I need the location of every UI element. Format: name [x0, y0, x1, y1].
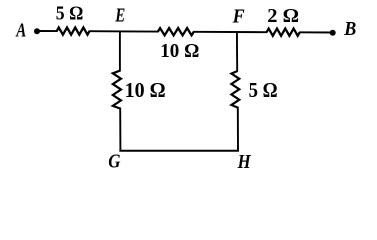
svg-text:B: B: [343, 18, 356, 40]
svg-text:E: E: [114, 5, 125, 27]
svg-text:10 Ω: 10 Ω: [160, 40, 199, 62]
wire F down: [236, 31, 238, 72]
wire: [193, 31, 267, 33]
resistor 2ohm F-B: [267, 29, 300, 36]
wire G up: [119, 108, 121, 151]
svg-text:A: A: [15, 19, 26, 41]
wire G-H bottom: [119, 150, 239, 152]
wire: [299, 31, 333, 33]
node B: [330, 30, 336, 36]
resistor 5ohm F-H: [231, 71, 239, 108]
wire: [37, 30, 58, 32]
svg-text:2 Ω: 2 Ω: [267, 5, 299, 27]
node A: [34, 28, 40, 34]
resistor 10ohm E-F: [158, 28, 194, 35]
svg-text:10 Ω: 10 Ω: [125, 78, 166, 102]
wire H up: [237, 107, 239, 151]
svg-text:F: F: [232, 6, 245, 28]
svg-text:5 Ω: 5 Ω: [56, 3, 84, 25]
svg-text:5 Ω: 5 Ω: [249, 78, 278, 102]
svg-text:H: H: [237, 151, 252, 173]
svg-text:G: G: [108, 151, 121, 173]
wire E down: [119, 31, 121, 72]
resistor 10ohm E-G: [113, 71, 121, 109]
resistor 5ohm A-E: [57, 28, 90, 35]
wire: [89, 30, 159, 32]
